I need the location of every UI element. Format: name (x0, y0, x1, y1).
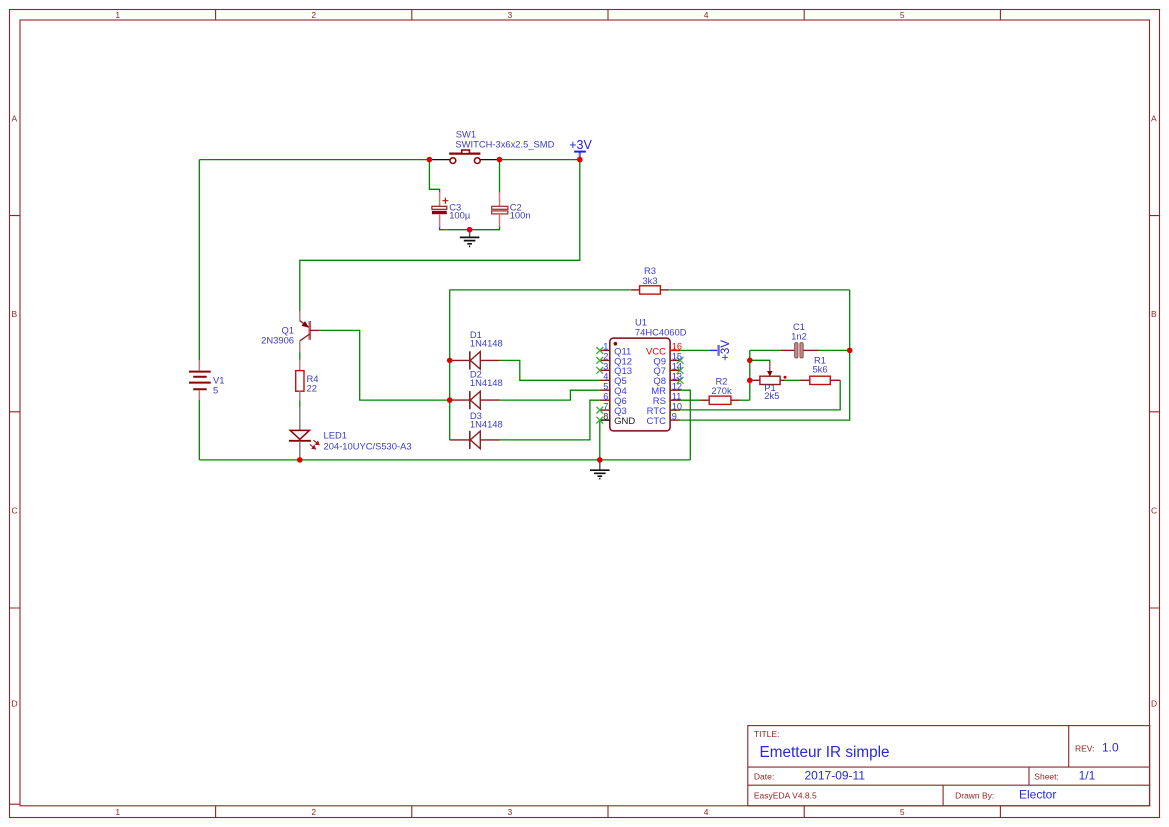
wire R1 right to RTC pin10 (680, 380, 840, 410)
svg-text:100n: 100n (510, 209, 531, 220)
node switch right / C2 (497, 157, 503, 163)
svg-text:204-10UYC/S530-A3: 204-10UYC/S530-A3 (324, 440, 412, 451)
wire top rail left (battery + to switch) (199, 159, 429, 161)
wire R3 rail left (450, 289, 631, 291)
wire P1 to R1 (785, 379, 801, 381)
svg-text:74HC4060D: 74HC4060D (635, 326, 687, 337)
node LED ground rail (297, 457, 303, 463)
no-connect X marks left (596, 347, 603, 424)
svg-text:4: 4 (704, 10, 709, 20)
diode D1 (450, 329, 503, 370)
node +3V rail (577, 157, 583, 163)
row letters left (12, 113, 18, 708)
resistor R2 (700, 375, 739, 404)
capacitor C2 (492, 192, 531, 227)
svg-text:REV:: REV: (1075, 743, 1095, 753)
wire MR pin12 to ground rail (680, 390, 690, 460)
svg-text:GND: GND (614, 416, 635, 427)
svg-text:100µ: 100µ (449, 209, 471, 220)
svg-text:16: 16 (672, 342, 682, 352)
svg-text:5: 5 (900, 10, 905, 20)
pin names right (646, 346, 666, 427)
svg-text:1: 1 (115, 10, 120, 20)
wire Q1 collector to R4 (299, 341, 301, 361)
wire bottom ground rail (199, 459, 690, 461)
wire D3 to pin6 Q6 (499, 400, 600, 440)
diode D3 (450, 410, 503, 449)
wire Q1 base to diode bus (320, 330, 450, 400)
transistor Q1 (261, 311, 320, 353)
wire capacitor bottom rail (440, 226, 500, 230)
svg-text:D: D (12, 699, 18, 709)
svg-text:13: 13 (672, 372, 682, 382)
pin numbers left (603, 342, 608, 422)
wire GND pin8 down (599, 420, 601, 460)
LED1 (289, 407, 412, 460)
battery V1 (189, 360, 224, 400)
wire switch right to +3V (500, 159, 580, 161)
svg-text:D: D (1151, 699, 1157, 709)
wire R2 to node vertical (740, 399, 750, 401)
svg-text:3k3: 3k3 (642, 275, 657, 286)
svg-text:Drawn By:: Drawn By: (955, 791, 994, 801)
capacitor C1 (781, 321, 818, 358)
svg-text:22: 22 (307, 382, 317, 393)
diode D2 (450, 369, 503, 410)
svg-text:7: 7 (603, 401, 608, 411)
svg-text:4: 4 (603, 372, 608, 382)
wire C2 branch (499, 160, 501, 193)
power +3V at VCC pin16 (710, 340, 732, 361)
svg-text:2k5: 2k5 (764, 390, 779, 401)
node D1 bus (447, 358, 453, 364)
column ticks bottom (216, 806, 1001, 818)
svg-text:Sheet:: Sheet: (1034, 772, 1059, 782)
svg-text:1N4148: 1N4148 (470, 338, 503, 349)
column numbers bottom (115, 807, 905, 817)
svg-text:3: 3 (603, 362, 608, 372)
node IC ground rail (597, 457, 603, 463)
pin numbers right (672, 342, 682, 422)
right pin stubs (670, 349, 680, 351)
node C1 right (847, 348, 853, 354)
potentiometer P1 (750, 361, 787, 401)
wire RS pin11 to R2 (680, 399, 700, 401)
svg-text:6: 6 (603, 392, 608, 402)
svg-text:1n2: 1n2 (791, 331, 807, 342)
svg-text:5k6: 5k6 (812, 363, 827, 374)
junction dots (297, 157, 853, 463)
svg-text:1/1: 1/1 (1079, 768, 1096, 782)
wire D1 to pin4 Q5 (499, 360, 600, 380)
svg-text:11: 11 (672, 392, 682, 402)
capacitor C3 (432, 192, 471, 227)
switch SW1 (429, 129, 554, 164)
node switch left / C3 (427, 157, 433, 163)
svg-text:270k: 270k (711, 385, 732, 396)
wire C1 row left (750, 349, 782, 351)
svg-text:+3V: +3V (569, 138, 592, 152)
svg-text:B: B (12, 309, 18, 319)
wire C3 branch (429, 160, 439, 193)
svg-text:Elector: Elector (1019, 788, 1056, 802)
svg-text:14: 14 (672, 362, 682, 372)
svg-text:2017-09-11: 2017-09-11 (805, 768, 866, 782)
svg-text:EasyEDA V4.8.5: EasyEDA V4.8.5 (754, 791, 817, 801)
node P1 left (747, 378, 753, 384)
svg-text:SWITCH-3x6x2.5_SMD: SWITCH-3x6x2.5_SMD (455, 138, 554, 149)
svg-text:5: 5 (900, 807, 905, 817)
svg-text:5: 5 (603, 382, 608, 392)
wire oscillator node vertical (749, 350, 751, 400)
PARTS (189, 129, 853, 479)
svg-text:LED1: LED1 (324, 430, 347, 441)
wire C1 row right (818, 349, 850, 351)
node capacitor ground (467, 227, 473, 233)
svg-text:C: C (12, 505, 18, 515)
svg-text:3: 3 (508, 10, 513, 20)
WIRES (199, 160, 849, 460)
svg-text:CTC: CTC (646, 416, 666, 427)
wire diode cathode bus (449, 290, 451, 440)
svg-text:1: 1 (603, 342, 608, 352)
svg-text:Emetteur IR simple: Emetteur IR simple (760, 744, 890, 761)
svg-text:4: 4 (704, 807, 709, 817)
svg-text:8: 8 (603, 411, 608, 421)
svg-text:1N4148: 1N4148 (470, 419, 503, 430)
svg-text:5: 5 (213, 385, 218, 396)
resistor R4 (296, 360, 319, 401)
row letters right (1151, 113, 1157, 708)
svg-text:Date:: Date: (754, 772, 774, 782)
ground (capacitors) (460, 230, 480, 247)
svg-text:C: C (1151, 505, 1157, 515)
svg-text:2: 2 (311, 807, 316, 817)
wire battery left vertical bottom (198, 400, 200, 460)
svg-text:9: 9 (672, 411, 677, 421)
node D2 bus (447, 397, 453, 403)
left pin stubs (600, 350, 610, 410)
svg-text:+3V: +3V (720, 340, 732, 361)
svg-text:B: B (1151, 309, 1157, 319)
wire D2 to pin5 Q4 (499, 390, 600, 400)
wire R4 to LED (299, 400, 301, 406)
svg-text:2N3906: 2N3906 (261, 335, 294, 346)
svg-text:TITLE:: TITLE: (754, 729, 780, 739)
IC U1 74HC4060D (596, 317, 686, 431)
node wiper (747, 358, 753, 364)
column numbers top (115, 10, 905, 20)
resistor R1 (800, 355, 840, 385)
svg-text:1: 1 (115, 807, 120, 817)
svg-text:2: 2 (311, 10, 316, 20)
ground (IC pin8) (590, 460, 610, 479)
no-connect X marks right (677, 357, 684, 384)
svg-text:A: A (1151, 113, 1157, 123)
title block box (748, 726, 1150, 806)
svg-text:12: 12 (672, 382, 682, 392)
svg-text:1N4148: 1N4148 (470, 377, 503, 388)
pin names left (614, 346, 635, 427)
svg-text:2: 2 (603, 352, 608, 362)
svg-text:15: 15 (672, 352, 682, 362)
svg-text:10: 10 (672, 401, 682, 411)
row ticks left (10, 216, 21, 805)
svg-text:A: A (12, 113, 18, 123)
wire wiper branch (750, 360, 770, 362)
wire right loop R3 to CTC (680, 290, 850, 420)
row ticks right (1150, 216, 1160, 608)
TITLEBLOCK (748, 726, 1150, 806)
wire VCC pin16 to +3V (680, 349, 710, 351)
wire battery left vertical top (198, 160, 200, 361)
svg-text:1.0: 1.0 (1102, 740, 1119, 754)
power +3V top (569, 138, 592, 160)
resistor R3 (631, 265, 669, 294)
column ticks top (216, 10, 1001, 21)
wire R3 rail right (669, 289, 850, 291)
wire +3V drop to Q1 emitter (300, 160, 580, 312)
svg-text:3: 3 (508, 807, 513, 817)
